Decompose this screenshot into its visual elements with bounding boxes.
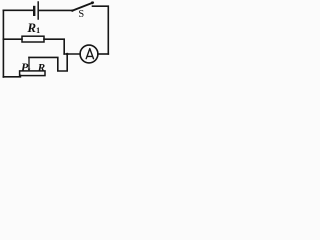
svg-text:P: P <box>21 60 29 74</box>
svg-text:R: R <box>37 62 45 74</box>
svg-text:S: S <box>78 9 84 20</box>
